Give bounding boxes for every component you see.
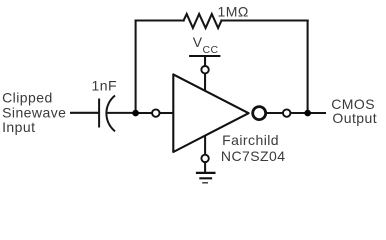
svg-text:NC7SZ04: NC7SZ04	[221, 148, 286, 164]
svg-text:Sinewave: Sinewave	[2, 104, 66, 120]
svg-text:Clipped: Clipped	[2, 90, 53, 106]
svg-text:CC: CC	[203, 44, 219, 56]
svg-text:Input: Input	[2, 119, 35, 135]
svg-text:Output: Output	[332, 110, 377, 126]
svg-text:Fairchild: Fairchild	[222, 132, 279, 148]
svg-text:1nF: 1nF	[92, 77, 117, 93]
svg-text:V: V	[193, 34, 203, 50]
svg-text:1MΩ: 1MΩ	[218, 3, 249, 19]
